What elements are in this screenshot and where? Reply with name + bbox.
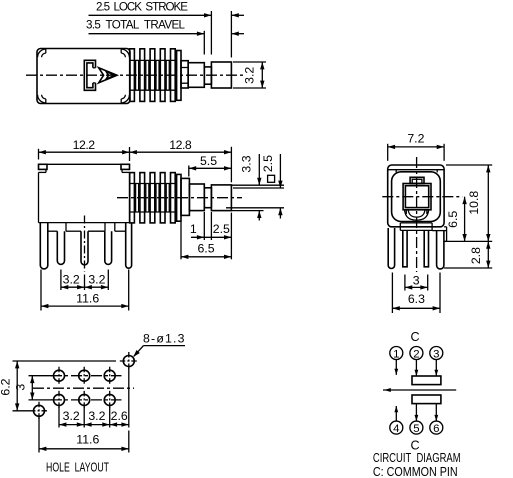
svg-text:2: 2 <box>413 348 419 360</box>
svg-text:8-ø1.3: 8-ø1.3 <box>143 332 185 346</box>
svg-text:3.5 TOTAL TRAVEL: 3.5 TOTAL TRAVEL <box>86 19 186 32</box>
svg-text:5: 5 <box>413 423 419 435</box>
svg-text:3: 3 <box>413 274 420 288</box>
svg-text:CIRCUIT DIAGRAM: CIRCUIT DIAGRAM <box>373 450 461 465</box>
svg-text:12.2: 12.2 <box>73 138 96 152</box>
svg-text:2.8: 2.8 <box>469 247 483 264</box>
svg-text:C: C <box>410 330 419 344</box>
svg-text:3: 3 <box>14 384 28 391</box>
svg-text:10.8: 10.8 <box>467 191 481 215</box>
svg-text:3: 3 <box>433 348 439 360</box>
svg-text:C: COMMON PIN: C: COMMON PIN <box>373 464 458 478</box>
svg-text:5.5: 5.5 <box>200 154 217 168</box>
svg-text:2.5 LOCK STROKE: 2.5 LOCK STROKE <box>96 0 188 13</box>
svg-text:12.8: 12.8 <box>169 138 192 152</box>
svg-text:3.3: 3.3 <box>239 155 253 172</box>
svg-text:3.2: 3.2 <box>63 272 80 286</box>
svg-text:HOLE LAYOUT: HOLE LAYOUT <box>46 460 109 475</box>
svg-text:11.6: 11.6 <box>76 433 99 447</box>
svg-text:4: 4 <box>393 423 399 435</box>
svg-text:6.5: 6.5 <box>446 211 460 228</box>
svg-text:1: 1 <box>393 348 399 360</box>
svg-text:1: 1 <box>190 222 197 236</box>
svg-text:6.3: 6.3 <box>408 292 425 306</box>
svg-text:2.5: 2.5 <box>213 222 230 236</box>
svg-text:3.2: 3.2 <box>88 272 105 286</box>
svg-text:7.2: 7.2 <box>407 131 424 145</box>
svg-text:2.5: 2.5 <box>261 155 275 172</box>
svg-text:6.5: 6.5 <box>197 241 214 255</box>
svg-text:11.6: 11.6 <box>76 291 99 305</box>
svg-text:6: 6 <box>433 423 439 435</box>
svg-text:3.2: 3.2 <box>88 409 105 423</box>
svg-text:3.2: 3.2 <box>242 67 256 84</box>
svg-text:2.6: 2.6 <box>111 409 128 423</box>
svg-text:6.2: 6.2 <box>0 378 13 395</box>
svg-text:3.2: 3.2 <box>63 409 80 423</box>
